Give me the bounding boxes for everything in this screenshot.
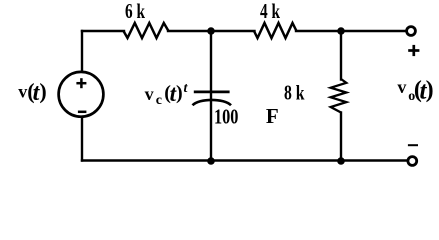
- wire nodeB-to-terminal: [341, 30, 406, 32]
- resistor R1 6k zigzag: [124, 23, 169, 38]
- svg-text:): ): [426, 77, 434, 103]
- svg-text:): ): [39, 78, 46, 103]
- voltage source V1 circle: [59, 72, 104, 117]
- output terminal top: [407, 27, 416, 36]
- voltage source plus sign: [76, 78, 86, 88]
- wire 8k top stub: [340, 31, 342, 80]
- label vc(t) capacitor: [145, 81, 189, 108]
- resistor R2 4k zigzag: [254, 23, 297, 38]
- svg-text:100: 100: [214, 105, 238, 129]
- wire top-left horizontal: [82, 30, 124, 32]
- wire 6k-to-nodeA: [168, 30, 255, 32]
- wire source-bottom vertical: [81, 117, 83, 161]
- capacitor C1 curved plate: [193, 100, 232, 105]
- svg-text:t: t: [184, 81, 189, 96]
- wire top-left vertical: [81, 31, 83, 72]
- voltage source minus sign: [78, 111, 87, 114]
- node A top dot: [207, 27, 215, 35]
- svg-text:): ): [176, 82, 183, 104]
- node B top dot: [337, 27, 345, 35]
- capacitor C1 top plate: [194, 91, 230, 94]
- label vo(t) output: [397, 77, 433, 105]
- svg-text:F: F: [266, 104, 279, 128]
- output plus sign: [408, 45, 419, 56]
- resistor R3 8k zigzag vertical: [331, 79, 347, 113]
- node A bottom dot: [207, 157, 215, 165]
- svg-text:6 k: 6 k: [125, 0, 145, 23]
- svg-text:4 k: 4 k: [260, 0, 280, 23]
- output minus sign: [408, 144, 418, 146]
- svg-text:v: v: [145, 84, 154, 104]
- wire capacitor branch vertical: [210, 31, 212, 161]
- label v(t) source: [18, 78, 46, 106]
- wire bottom horizontal: [82, 159, 407, 161]
- wire 4k-to-nodeB: [296, 30, 341, 32]
- wire 8k bottom stub: [340, 113, 342, 161]
- node B bottom dot: [337, 157, 345, 165]
- svg-text:v: v: [18, 81, 27, 101]
- svg-text:8 k: 8 k: [284, 80, 305, 104]
- output terminal bottom: [408, 157, 417, 166]
- svg-text:c: c: [156, 93, 162, 108]
- svg-text:v: v: [397, 77, 406, 97]
